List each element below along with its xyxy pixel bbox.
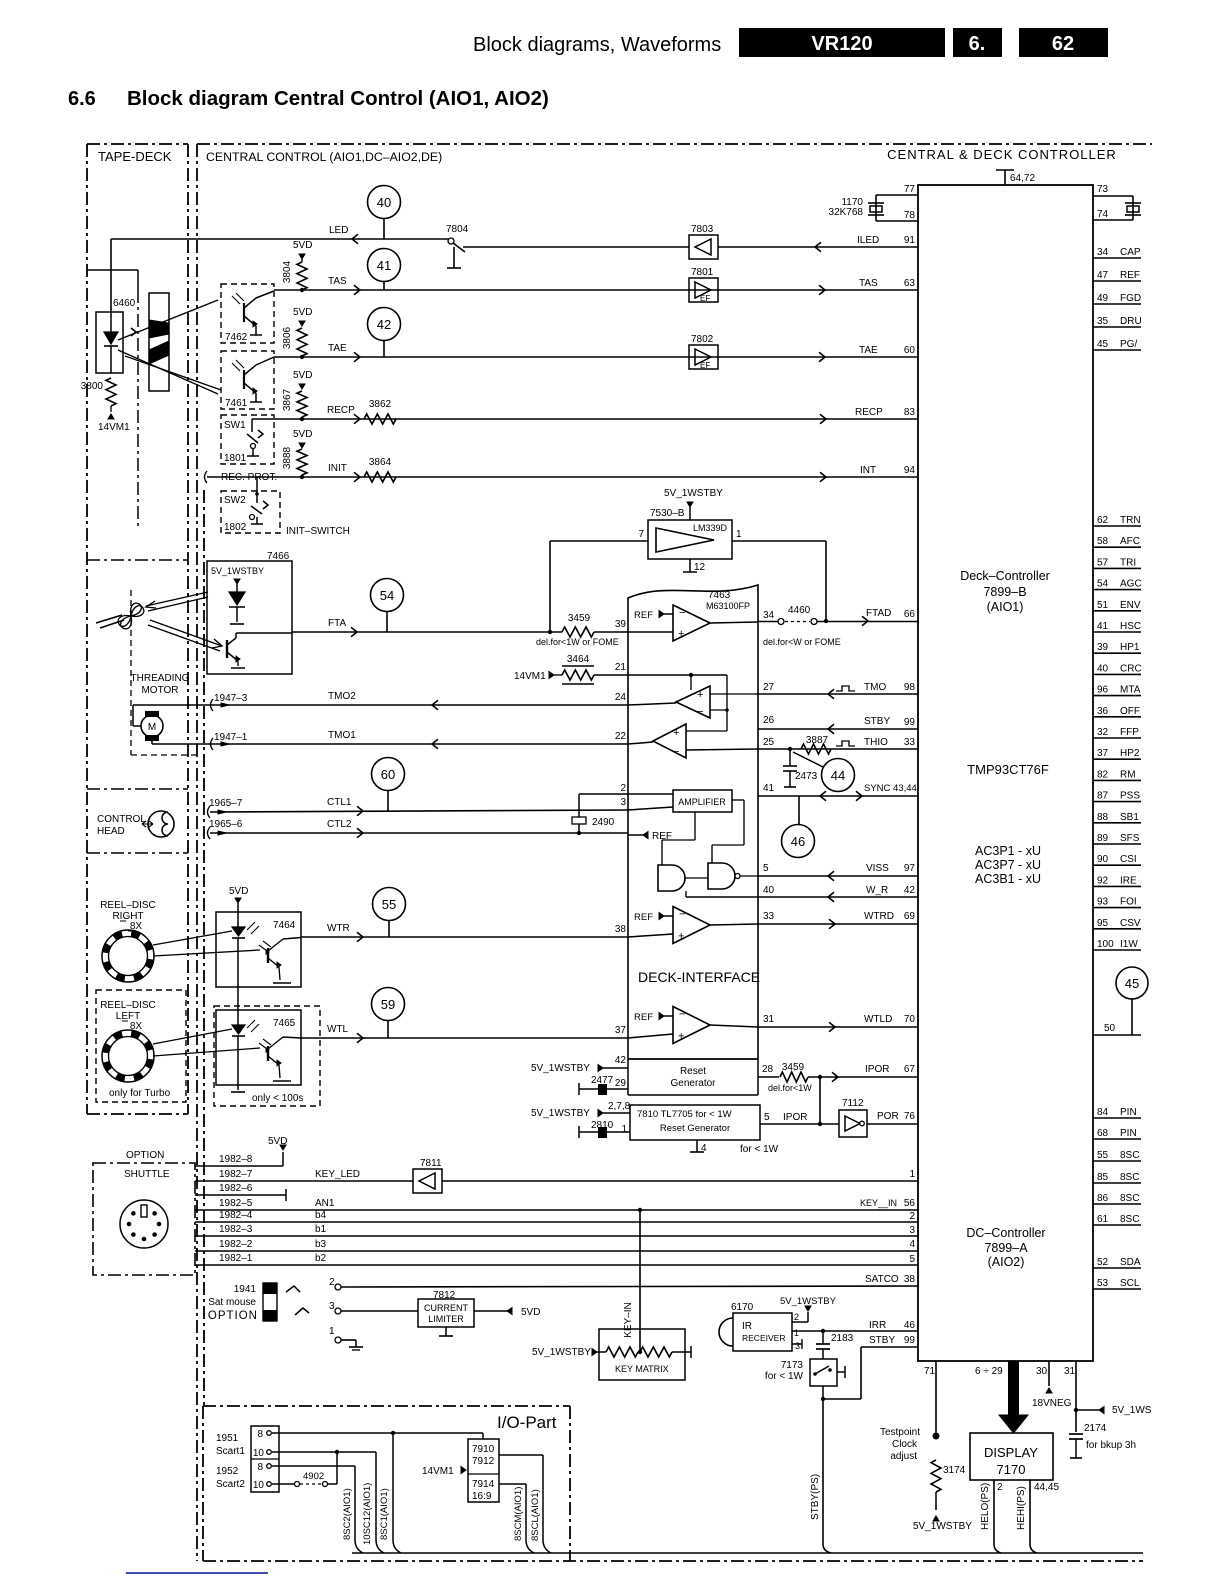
svg-text:7: 7 — [638, 529, 644, 540]
svg-text:60: 60 — [381, 767, 395, 782]
svg-text:8SC: 8SC — [1120, 1150, 1139, 1161]
svg-text:1952: 1952 — [216, 1466, 239, 1477]
svg-text:8SCL(AIO1): 8SCL(AIO1) — [530, 1489, 541, 1541]
svg-text:35: 35 — [1097, 316, 1109, 327]
svg-text:6170: 6170 — [731, 1302, 754, 1313]
svg-text:PIN: PIN — [1120, 1128, 1137, 1139]
wire comparator output to FTAD — [732, 540, 826, 542]
flag circle 40 — [368, 186, 401, 219]
svg-text:1: 1 — [329, 1326, 335, 1337]
svg-text:1982–5: 1982–5 — [219, 1198, 253, 1209]
svg-text:EF: EF — [700, 294, 710, 303]
svg-text:IR: IR — [742, 1321, 752, 1332]
svg-text:45: 45 — [1097, 339, 1109, 350]
op-amp TMO — [676, 686, 710, 718]
svg-text:55: 55 — [382, 897, 396, 912]
svg-text:for < 1W: for < 1W — [740, 1144, 779, 1155]
svg-text:+: + — [678, 628, 684, 640]
capacitor 2183 — [822, 1331, 824, 1344]
video switch 7910 7912 — [468, 1439, 499, 1502]
svg-text:OPTION: OPTION — [208, 1310, 258, 1322]
svg-text:57: 57 — [1097, 557, 1109, 568]
connector 4902 — [272, 1483, 294, 1485]
buffer 7802 — [689, 345, 718, 369]
svg-text:STBY(PS): STBY(PS) — [810, 1474, 821, 1520]
svg-text:61: 61 — [1097, 1214, 1109, 1225]
svg-text:4460: 4460 — [788, 605, 811, 616]
switch 7173 — [810, 1359, 837, 1386]
svg-text:4: 4 — [701, 1143, 707, 1154]
svg-text:1951: 1951 — [216, 1433, 239, 1444]
svg-text:92: 92 — [1097, 875, 1109, 886]
switch SW1 1801 — [221, 415, 274, 464]
flag circle 42 — [368, 308, 401, 341]
svg-text:3804: 3804 — [282, 260, 293, 283]
wire TMO1 — [213, 743, 628, 745]
svg-text:1982–6: 1982–6 — [219, 1183, 253, 1194]
wire b4 1982-4 — [195, 1221, 918, 1223]
deck interface block 7463 — [628, 585, 758, 1059]
svg-text:6460: 6460 — [113, 298, 136, 309]
svg-text:97: 97 — [904, 863, 916, 874]
flag circle 44 — [822, 759, 855, 792]
svg-text:for < 1W: for < 1W — [765, 1371, 804, 1382]
svg-text:12: 12 — [694, 562, 706, 573]
svg-text:REF: REF — [634, 610, 653, 621]
buffer 7811 — [413, 1169, 442, 1193]
svg-text:TAS: TAS — [328, 276, 347, 287]
svg-text:68: 68 — [1097, 1128, 1109, 1139]
svg-text:94: 94 — [904, 465, 916, 476]
svg-text:7466: 7466 — [267, 551, 290, 562]
svg-text:78: 78 — [904, 210, 916, 221]
svg-text:7910: 7910 — [472, 1444, 495, 1455]
svg-text:ENV: ENV — [1120, 600, 1141, 611]
threading motor fan — [121, 603, 142, 629]
svg-text:58: 58 — [1097, 536, 1109, 547]
svg-text:3862: 3862 — [369, 399, 392, 410]
svg-text:18VNEG: 18VNEG — [1032, 1398, 1072, 1409]
svg-text:STBY: STBY — [869, 1335, 895, 1346]
svg-text:2: 2 — [997, 1482, 1003, 1493]
svg-text:b3: b3 — [315, 1239, 327, 1250]
svg-text:64,72: 64,72 — [1010, 173, 1035, 184]
7465 phototransistor — [267, 1046, 269, 1061]
svg-text:INIT: INIT — [328, 463, 347, 474]
svg-text:5VD: 5VD — [521, 1307, 540, 1318]
svg-text:87: 87 — [1097, 791, 1109, 802]
wire CTL1 — [210, 810, 628, 812]
ground pin 12 comparator — [689, 559, 691, 572]
wire STBY deck — [758, 728, 918, 730]
svg-text:62: 62 — [1097, 515, 1109, 526]
svg-text:del.for<1W or FOME: del.for<1W or FOME — [536, 637, 619, 647]
svg-text:42: 42 — [377, 317, 391, 332]
wire TMO2 — [213, 704, 628, 706]
svg-text:b2: b2 — [315, 1253, 327, 1264]
svg-text:INT: INT — [860, 465, 876, 476]
svg-text:1982–2: 1982–2 — [219, 1239, 253, 1250]
sensor 7466 — [207, 561, 292, 674]
svg-text:RECP: RECP — [327, 405, 355, 416]
crystal right side — [1093, 195, 1133, 197]
svg-text:50: 50 — [1104, 1023, 1116, 1034]
svg-text:IRE: IRE — [1120, 875, 1137, 886]
svg-text:1: 1 — [621, 1124, 627, 1135]
svg-text:TMO: TMO — [864, 682, 886, 693]
svg-text:5VD: 5VD — [293, 370, 312, 381]
svg-text:25: 25 — [763, 737, 775, 748]
svg-text:CSV: CSV — [1120, 918, 1141, 929]
svg-text:IPOR: IPOR — [783, 1112, 807, 1123]
svg-text:RECEIVER: RECEIVER — [742, 1333, 785, 1343]
svg-text:8SC: 8SC — [1120, 1193, 1139, 1204]
svg-text:3: 3 — [909, 1225, 915, 1236]
svg-text:PG/: PG/ — [1120, 339, 1137, 350]
svg-text:WTL: WTL — [327, 1024, 349, 1035]
svg-text:DRU: DRU — [1120, 316, 1142, 327]
svg-text:TAS: TAS — [859, 278, 878, 289]
svg-text:M: M — [148, 722, 156, 733]
svg-text:AMPLIFIER: AMPLIFIER — [678, 797, 726, 807]
svg-text:42: 42 — [615, 1055, 627, 1066]
wire FTA — [292, 631, 562, 633]
svg-text:49: 49 — [1097, 293, 1109, 304]
svg-text:96: 96 — [1097, 685, 1109, 696]
svg-text:5: 5 — [909, 1254, 915, 1265]
svg-text:74: 74 — [1097, 209, 1109, 220]
wire VISS — [758, 875, 918, 877]
svg-text:7530–B: 7530–B — [650, 508, 685, 519]
svg-text:5VD: 5VD — [293, 240, 312, 251]
flag circle 60 — [372, 758, 405, 791]
svg-text:RM: RM — [1120, 769, 1136, 780]
frame central control border — [197, 143, 1152, 145]
wire RECP — [252, 418, 918, 420]
svg-text:1982–7: 1982–7 — [219, 1169, 253, 1180]
svg-text:POR: POR — [877, 1111, 899, 1122]
svg-text:5V_1WSTBY: 5V_1WSTBY — [531, 1108, 590, 1119]
svg-text:2174: 2174 — [1084, 1423, 1107, 1434]
svg-text:7811: 7811 — [420, 1158, 442, 1169]
svg-text:30: 30 — [1036, 1366, 1048, 1377]
wire vertical LED to 6460 — [110, 239, 112, 312]
frame bottom border — [203, 1560, 1143, 1562]
svg-text:3806: 3806 — [282, 326, 293, 349]
svg-text:1801: 1801 — [224, 453, 247, 464]
svg-text:3867: 3867 — [282, 388, 293, 411]
svg-text:LIMITER: LIMITER — [428, 1314, 464, 1324]
svg-text:34: 34 — [763, 610, 775, 621]
svg-text:91: 91 — [904, 235, 916, 246]
svg-text:Deck–Controller: Deck–Controller — [960, 569, 1050, 583]
svg-text:3864: 3864 — [369, 457, 392, 468]
svg-text:42: 42 — [904, 885, 916, 896]
svg-text:3459: 3459 — [568, 613, 591, 624]
svg-text:47: 47 — [1097, 270, 1109, 281]
svg-text:TRI: TRI — [1120, 557, 1136, 568]
wire THIO resistor 3887 — [758, 748, 918, 750]
svg-text:31: 31 — [763, 1014, 775, 1025]
svg-text:FTA: FTA — [328, 618, 346, 629]
svg-text:8SC1(AIO1): 8SC1(AIO1) — [379, 1488, 390, 1540]
svg-text:del.for<1W: del.for<1W — [768, 1083, 812, 1093]
svg-text:8SC: 8SC — [1120, 1172, 1139, 1183]
svg-text:REEL–DISC: REEL–DISC — [100, 900, 156, 911]
svg-text:39: 39 — [615, 619, 627, 630]
reel disc left box — [96, 990, 186, 1102]
svg-text:adjust: adjust — [890, 1451, 917, 1462]
svg-text:24: 24 — [615, 692, 627, 703]
svg-text:AFC: AFC — [1120, 536, 1140, 547]
svg-text:5VD: 5VD — [229, 886, 248, 897]
buffer 7803 — [689, 235, 718, 259]
svg-text:VR120: VR120 — [811, 33, 872, 55]
svg-text:DISPLAY: DISPLAY — [984, 1445, 1038, 1460]
svg-text:IRR: IRR — [869, 1320, 886, 1331]
svg-text:SYNC 43,44: SYNC 43,44 — [864, 783, 917, 794]
light beams 6460 — [118, 300, 218, 340]
svg-text:5V_1WSTBY: 5V_1WSTBY — [913, 1521, 972, 1532]
svg-text:41: 41 — [377, 258, 391, 273]
svg-text:1965–6: 1965–6 — [209, 819, 243, 830]
svg-text:63: 63 — [904, 278, 916, 289]
frame tape-deck border — [87, 143, 188, 145]
reset generator 7810 — [630, 1105, 760, 1140]
svg-text:46: 46 — [791, 834, 805, 849]
reset generator block — [628, 1058, 758, 1060]
wire b3 1982-2 — [195, 1250, 918, 1252]
svg-text:8SCM(AIO1): 8SCM(AIO1) — [513, 1487, 524, 1541]
svg-text:7801: 7801 — [691, 267, 714, 278]
svg-text:7810 TL7705 for < 1W: 7810 TL7705 for < 1W — [637, 1109, 732, 1120]
svg-text:5V_1WSTBY: 5V_1WSTBY — [664, 488, 723, 499]
svg-text:+: + — [678, 1031, 684, 1043]
svg-text:26: 26 — [763, 715, 775, 726]
svg-text:4902: 4902 — [303, 1471, 324, 1482]
svg-text:14VM1: 14VM1 — [98, 422, 130, 433]
svg-text:40: 40 — [377, 195, 391, 210]
svg-text:3888: 3888 — [282, 446, 293, 469]
svg-text:10: 10 — [253, 1448, 265, 1459]
wire SYNC — [758, 795, 918, 797]
svg-text:PSS: PSS — [1120, 791, 1140, 802]
svg-text:only for Turbo: only for Turbo — [109, 1088, 171, 1099]
svg-text:CTL2: CTL2 — [327, 819, 352, 830]
svg-text:1982–1: 1982–1 — [219, 1253, 253, 1264]
svg-text:62: 62 — [1052, 33, 1074, 55]
svg-text:PIN: PIN — [1120, 1107, 1137, 1118]
svg-text:37: 37 — [615, 1025, 627, 1036]
wire STBY(PS) — [822, 1399, 824, 1544]
sat mouse contact 3 — [295, 1308, 309, 1315]
svg-text:8: 8 — [257, 1462, 263, 1473]
svg-text:OPTION: OPTION — [126, 1150, 164, 1161]
svg-text:TMP93CT76F: TMP93CT76F — [967, 762, 1049, 777]
svg-text:FOI: FOI — [1120, 897, 1137, 908]
svg-text:40: 40 — [763, 885, 775, 896]
resistor 3800 — [106, 378, 116, 406]
scart wires — [272, 1432, 483, 1434]
opto coupler 6460 — [96, 312, 123, 373]
light beams motor — [146, 592, 208, 606]
opto sensor 7461 — [221, 351, 274, 409]
svg-text:14VM1: 14VM1 — [514, 671, 546, 682]
svg-text:WTR: WTR — [327, 923, 350, 934]
svg-text:5: 5 — [763, 863, 769, 874]
connector 4460 on FTAD — [758, 621, 918, 623]
op-amp THIO — [653, 724, 686, 758]
svg-text:55: 55 — [1097, 1150, 1109, 1161]
svg-text:HEHI(PS): HEHI(PS) — [1016, 1486, 1027, 1530]
svg-text:5V_1WS: 5V_1WS — [1112, 1405, 1152, 1416]
svg-text:CTL1: CTL1 — [327, 797, 352, 808]
svg-text:53: 53 — [1097, 1278, 1109, 1289]
svg-text:I/O-Part: I/O-Part — [497, 1413, 557, 1432]
display 7170 — [970, 1433, 1053, 1480]
svg-text:CSI: CSI — [1120, 854, 1137, 865]
svg-text:Block diagram Central Control: Block diagram Central Control (AIO1, AIO… — [127, 87, 549, 110]
svg-text:THREADING: THREADING — [131, 673, 190, 684]
svg-text:33: 33 — [904, 737, 916, 748]
tape wheel — [149, 293, 169, 391]
svg-text:10: 10 — [253, 1480, 265, 1491]
svg-text:INIT–SWITCH: INIT–SWITCH — [286, 526, 350, 537]
switch 7804 — [448, 238, 454, 244]
svg-text:7170: 7170 — [997, 1462, 1026, 1477]
svg-text:1982–8: 1982–8 — [219, 1154, 253, 1165]
svg-text:7804: 7804 — [446, 224, 469, 235]
svg-text:14VM1: 14VM1 — [422, 1466, 454, 1477]
svg-text:KEY__IN: KEY__IN — [860, 1198, 897, 1208]
wire WTL — [301, 1037, 628, 1039]
svg-text:LED: LED — [329, 225, 348, 236]
svg-text:1982–4: 1982–4 — [219, 1210, 253, 1221]
svg-text:−: − — [673, 746, 679, 758]
svg-text:5V_1WSTBY: 5V_1WSTBY — [532, 1347, 591, 1358]
svg-text:DECK-INTERFACE: DECK-INTERFACE — [638, 969, 760, 985]
svg-text:CRC: CRC — [1120, 663, 1142, 674]
svg-text:85: 85 — [1097, 1172, 1109, 1183]
svg-text:100: 100 — [1097, 939, 1114, 950]
svg-text:VISS: VISS — [866, 863, 889, 874]
svg-text:M63100FP: M63100FP — [706, 601, 750, 611]
svg-text:CURRENT: CURRENT — [424, 1303, 469, 1313]
IC 7899 central & deck controller — [918, 185, 1093, 1361]
capacitor 2473 — [789, 749, 791, 766]
wire b2 1982-1 — [195, 1264, 918, 1266]
svg-text:−: − — [679, 1009, 685, 1021]
svg-text:2183: 2183 — [831, 1333, 854, 1344]
wire KEY-IN vertical — [639, 1210, 641, 1352]
svg-text:16:9: 16:9 — [472, 1491, 492, 1502]
IC right pins group middle — [1093, 525, 1141, 527]
svg-text:TAPE-DECK: TAPE-DECK — [98, 149, 172, 164]
wire STBY routing — [861, 1346, 918, 1348]
svg-text:3: 3 — [329, 1301, 335, 1312]
svg-text:(AIO2): (AIO2) — [988, 1255, 1025, 1269]
svg-text:4: 4 — [909, 1239, 915, 1250]
svg-text:34: 34 — [1097, 247, 1109, 258]
svg-text:7173: 7173 — [781, 1360, 804, 1371]
wire WTR — [301, 936, 628, 938]
frame inner dividers tape-deck — [87, 269, 138, 271]
svg-text:W_R: W_R — [866, 885, 888, 896]
wires 7910 outputs — [499, 1454, 543, 1456]
bottom rail — [352, 1552, 1143, 1554]
svg-text:Sat mouse: Sat mouse — [208, 1297, 256, 1308]
wire TMO from IC — [758, 693, 918, 695]
svg-text:77: 77 — [904, 184, 916, 195]
svg-text:only < 100s: only < 100s — [252, 1093, 303, 1104]
svg-text:3459: 3459 — [782, 1062, 805, 1073]
sat mouse contact 2 SATCO — [286, 1286, 300, 1292]
svg-text:1941: 1941 — [234, 1284, 257, 1295]
svg-text:21: 21 — [615, 662, 627, 673]
svg-text:+: + — [697, 689, 703, 701]
svg-text:SW2: SW2 — [224, 495, 246, 506]
flag circle 59 — [372, 988, 405, 1021]
svg-text:b4: b4 — [315, 1210, 327, 1221]
svg-text:32K768: 32K768 — [829, 207, 864, 218]
svg-text:STBY: STBY — [864, 716, 890, 727]
opto sensor 7462 — [221, 284, 274, 343]
op-amp FTA (REF) — [659, 611, 664, 618]
op-amp WTRD — [659, 913, 664, 920]
svg-text:93: 93 — [1097, 897, 1109, 908]
op-amp WTLD — [659, 1013, 664, 1020]
svg-text:AC3P7 - xU: AC3P7 - xU — [975, 858, 1041, 872]
sensor 7464 — [216, 912, 301, 987]
svg-text:76: 76 — [904, 1111, 916, 1122]
svg-text:28: 28 — [762, 1064, 774, 1075]
svg-text:22: 22 — [615, 731, 627, 742]
svg-text:WTLD: WTLD — [864, 1014, 892, 1025]
amplifier box — [673, 790, 732, 812]
svg-text:33: 33 — [763, 911, 775, 922]
svg-text:for bkup 3h: for bkup 3h — [1086, 1440, 1136, 1451]
svg-text:3: 3 — [620, 797, 626, 808]
svg-text:88: 88 — [1097, 812, 1109, 823]
svg-text:7463: 7463 — [708, 590, 731, 601]
gate wiring — [694, 812, 696, 840]
wire 1982-8 5VD — [195, 1165, 283, 1167]
ground 7810 pin 4 — [696, 1140, 698, 1152]
svg-text:37: 37 — [1097, 748, 1109, 759]
svg-text:FFP: FFP — [1120, 727, 1139, 738]
IC right pins group bottom — [1093, 1117, 1141, 1119]
svg-text:46: 46 — [904, 1320, 916, 1331]
svg-text:DC–Controller: DC–Controller — [966, 1226, 1045, 1240]
svg-text:39: 39 — [1097, 642, 1109, 653]
svg-text:98: 98 — [904, 682, 916, 693]
wires motor to TMO — [133, 725, 141, 727]
svg-text:36: 36 — [1097, 706, 1109, 717]
svg-text:45: 45 — [1125, 976, 1139, 991]
svg-text:FTAD: FTAD — [866, 608, 891, 619]
flag circle 41 — [368, 249, 401, 282]
svg-text:(AIO1): (AIO1) — [987, 600, 1024, 614]
header box VR120 — [739, 28, 945, 57]
svg-text:69: 69 — [904, 911, 916, 922]
svg-text:+: + — [678, 931, 684, 943]
resistor 3459 FTA — [562, 627, 594, 637]
svg-text:2,7,8: 2,7,8 — [608, 1101, 631, 1112]
svg-text:59: 59 — [381, 997, 395, 1012]
svg-text:60: 60 — [904, 345, 916, 356]
svg-text:REF: REF — [634, 912, 653, 923]
svg-text:TMO2: TMO2 — [328, 691, 356, 702]
